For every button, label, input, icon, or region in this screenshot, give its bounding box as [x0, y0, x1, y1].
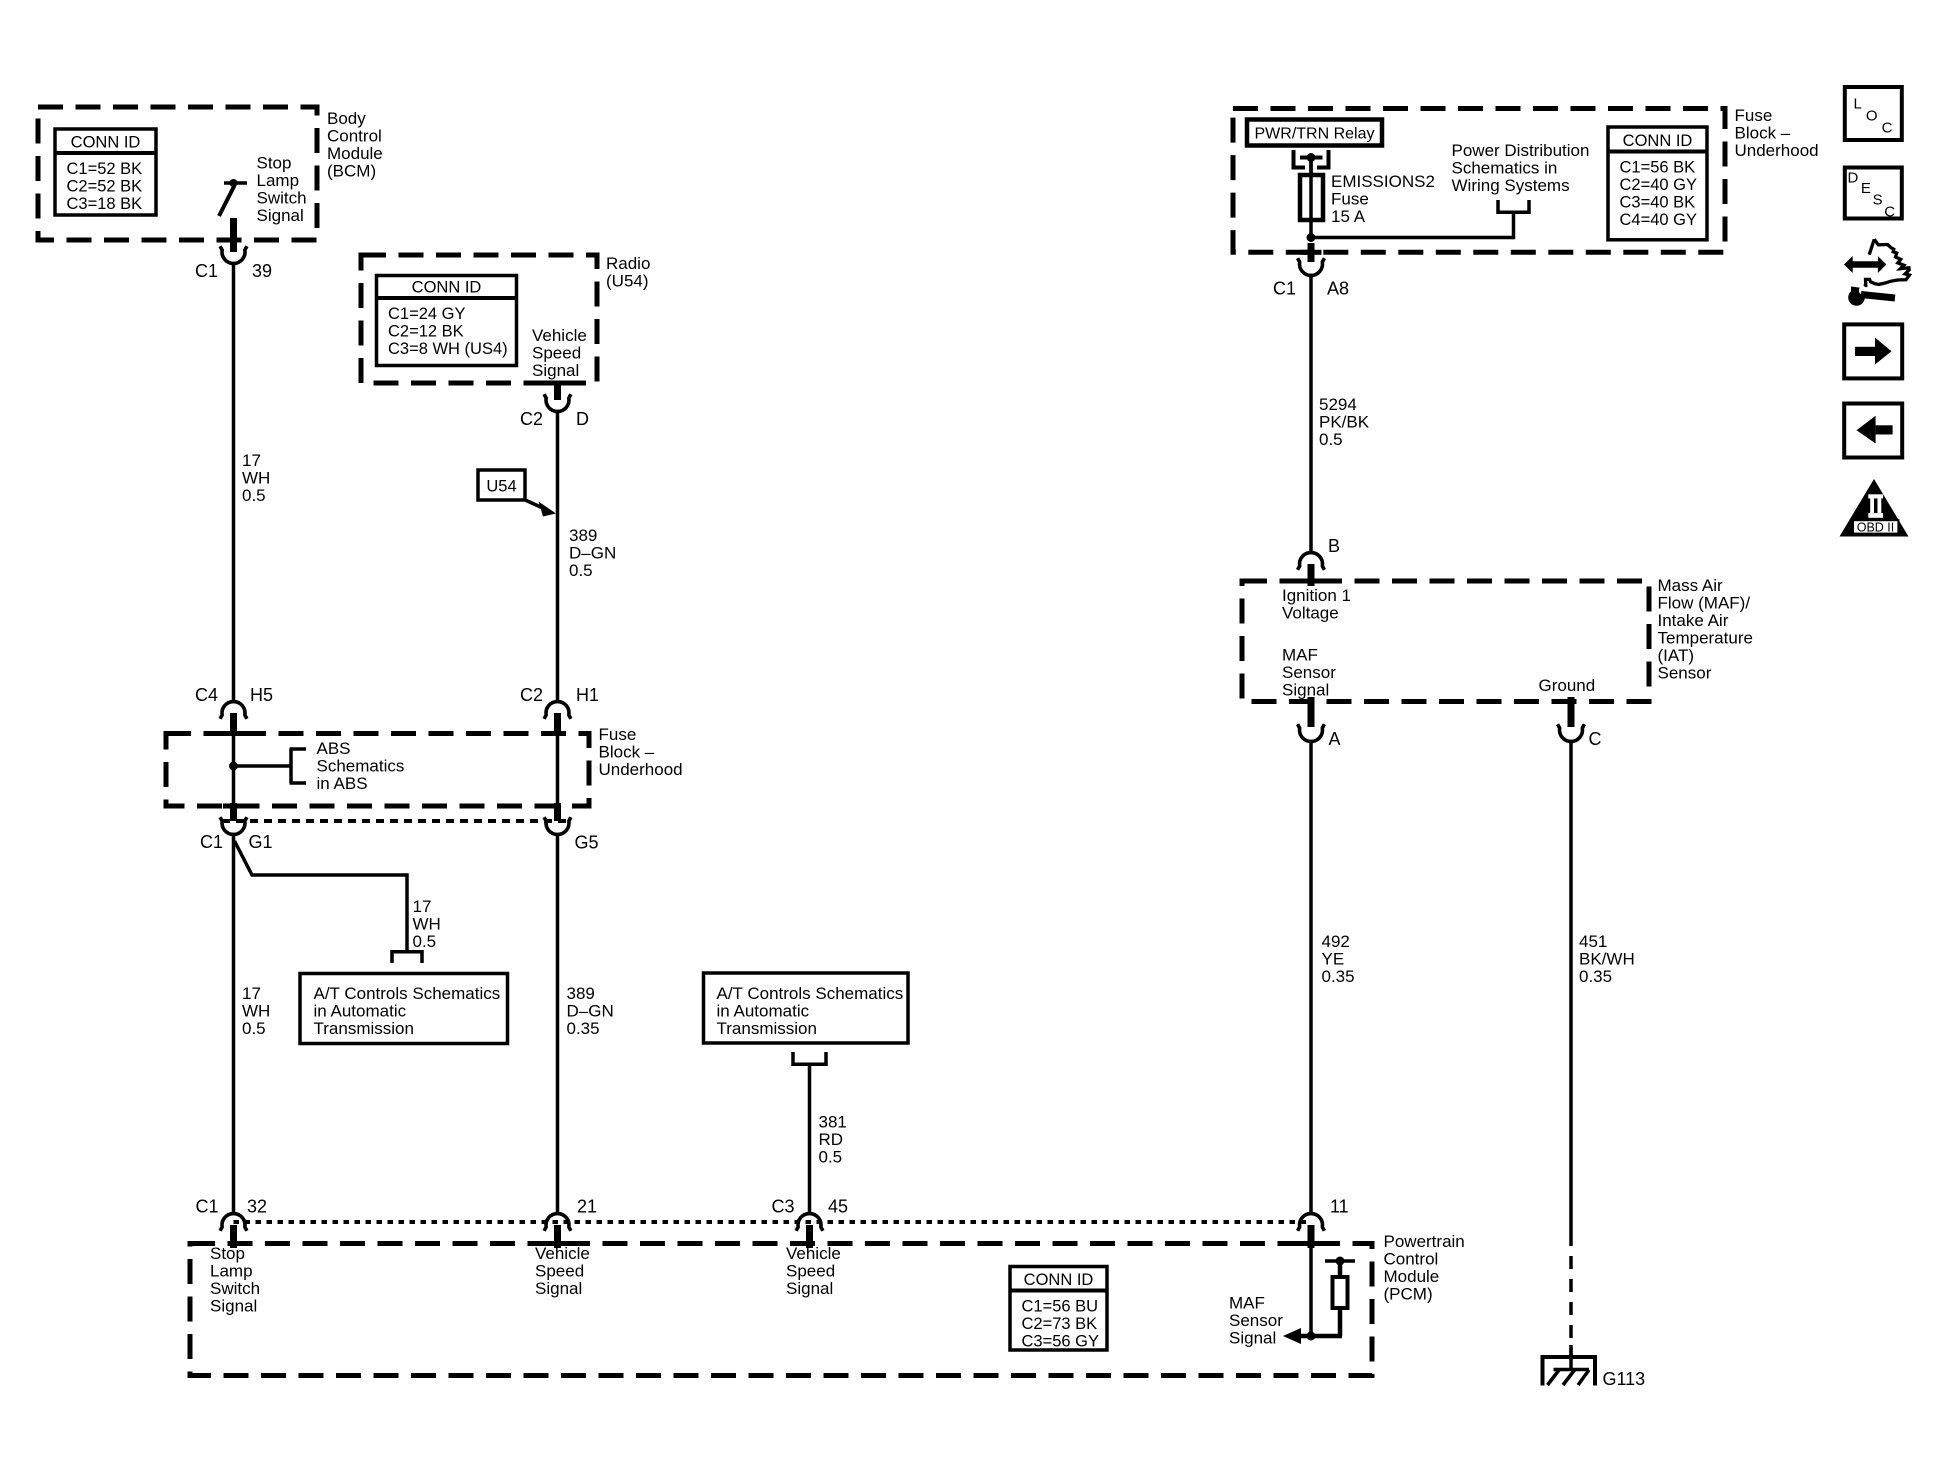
- junction dot PCM: [1307, 1332, 1316, 1341]
- icon OBD II triangle: [1840, 479, 1909, 537]
- pin C2/H1 into fuse block: [554, 713, 561, 736]
- svg-text:11: 11: [1330, 1197, 1349, 1217]
- pin radio C2 terminal D: [554, 383, 561, 400]
- ground G113: [1541, 1355, 1598, 1359]
- connector C cup: [1558, 724, 1585, 741]
- body control module BCM box: [38, 107, 317, 240]
- svg-text:O: O: [1866, 108, 1878, 125]
- wire 451 BK/WH solid part: [1569, 742, 1573, 1233]
- svg-text:OBD II: OBD II: [1857, 520, 1895, 534]
- pin C4/H5 into fuse block: [230, 713, 237, 736]
- svg-text:L: L: [1854, 96, 1862, 113]
- svg-text:E: E: [1861, 180, 1871, 197]
- pin fuse block C1 terminal A8: [1308, 243, 1315, 262]
- icon forward arrow: [1844, 324, 1902, 378]
- svg-text:CONN ID: CONN ID: [412, 279, 482, 297]
- pointer bracket power distribution: [1498, 211, 1529, 215]
- svg-text:CONN ID: CONN ID: [1024, 1271, 1094, 1289]
- svg-text:C1=56 BU: C1=56 BU: [1022, 1298, 1099, 1316]
- svg-text:C1=56 BK: C1=56 BK: [1620, 159, 1696, 177]
- connector 21 cup: [544, 1214, 571, 1231]
- CONN ID table fuse block: [1608, 127, 1707, 240]
- icon LOC: [1845, 87, 1902, 140]
- svg-text:C: C: [1882, 120, 1893, 137]
- CONN ID table PCM: [1010, 1267, 1107, 1351]
- MAF sensor signal arrow: [1294, 1334, 1342, 1339]
- junction dot below fuse: [1307, 233, 1316, 242]
- connector C2/D cup: [544, 394, 571, 411]
- wire 11 inside PCM: [1309, 1248, 1313, 1336]
- wire 389 D-GN to PCM: [556, 835, 560, 1213]
- wire 381 RD to PCM: [808, 1066, 812, 1213]
- svg-text:39: 39: [252, 261, 272, 281]
- wire to power distribution pointer: [1311, 236, 1514, 240]
- connector A cup: [1298, 724, 1325, 741]
- pin BCM C1 terminal 39: [230, 218, 237, 252]
- svg-text:C2: C2: [520, 685, 543, 705]
- A/T Controls Schematics box 1: [300, 974, 508, 1044]
- svg-text:A: A: [1329, 729, 1341, 749]
- svg-text:G113: G113: [1603, 1369, 1646, 1389]
- svg-text:C2=40 GY: C2=40 GY: [1620, 176, 1698, 194]
- U54 callout box: [478, 470, 525, 500]
- icon back arrow: [1844, 404, 1902, 458]
- U54 callout arrow: [523, 499, 545, 509]
- wire 389 D-GN from radio to fuse block: [556, 412, 560, 701]
- svg-text:Ground: Ground: [1539, 676, 1596, 695]
- icon DESC: [1845, 168, 1902, 219]
- wire 5294 PK/BK: [1309, 276, 1313, 552]
- connector 11 cup: [1298, 1214, 1325, 1231]
- relay armature: [1300, 156, 1323, 160]
- pin 21 into PCM: [554, 1225, 561, 1248]
- svg-text:G1: G1: [249, 832, 273, 852]
- svg-text:C: C: [1589, 729, 1602, 749]
- wire 451 BK/WH dashed part: [1569, 1233, 1573, 1358]
- svg-text:21: 21: [577, 1197, 597, 1217]
- dotted bus into PCM: [234, 1220, 1312, 1224]
- CONN ID table BCM: [55, 129, 156, 215]
- svg-text:S: S: [1873, 192, 1883, 209]
- svg-text:C1=52 BK: C1=52 BK: [67, 160, 143, 178]
- svg-text:32: 32: [247, 1197, 267, 1217]
- svg-text:G5: G5: [575, 833, 599, 853]
- svg-text:C1: C1: [1273, 279, 1296, 299]
- pin C3/45 into PCM: [806, 1225, 813, 1248]
- CONN ID table radio: [377, 276, 517, 366]
- connector C1/A8 cup: [1298, 258, 1325, 275]
- svg-text:H1: H1: [576, 685, 599, 705]
- svg-text:PWR/TRN Relay: PWR/TRN Relay: [1254, 126, 1374, 143]
- connector C4/H5 cup: [220, 702, 247, 719]
- connector C2/H1 cup: [544, 702, 571, 719]
- pin A out of MAF sensor: [1308, 697, 1315, 727]
- pointer bracket below A/T box 2: [793, 1063, 826, 1067]
- fuse EMISSIONS2 15A: [1300, 175, 1323, 220]
- connector C1/39 cup: [220, 246, 247, 263]
- PWR/TRN relay label box: [1247, 120, 1382, 146]
- branch wire 17 WH to A/T controls: [235, 841, 408, 951]
- ABS schematics pointer bracket: [229, 762, 238, 771]
- stop lamp switch S1: [224, 181, 247, 185]
- MAF/IAT sensor box: [1242, 581, 1649, 702]
- pin C1/G1 out of fuse block: [230, 803, 237, 821]
- wire 17 WH to PCM: [232, 835, 236, 1213]
- svg-text:U54: U54: [486, 478, 516, 496]
- pin G5 out of fuse block: [554, 803, 561, 821]
- pin B into MAF sensor: [1308, 564, 1315, 586]
- svg-text:C3=40 BK: C3=40 BK: [1620, 194, 1696, 212]
- connector G5 cup: [544, 817, 571, 834]
- wire inside fuse block right: [556, 736, 560, 804]
- svg-text:CONN ID: CONN ID: [1623, 132, 1693, 150]
- svg-text:45: 45: [828, 1197, 848, 1217]
- svg-text:D: D: [1848, 170, 1859, 187]
- pin C1/32 into PCM: [230, 1225, 237, 1248]
- svg-text:C1: C1: [200, 832, 223, 852]
- svg-text:C3: C3: [771, 1197, 794, 1217]
- svg-text:C3=56 GY: C3=56 GY: [1022, 1333, 1100, 1351]
- pointer bracket above A/T box 1: [392, 950, 422, 954]
- powertrain control module PCM box: [190, 1244, 1372, 1376]
- connector C1/G1 cup: [220, 817, 247, 834]
- fuse block underhood box (top right): [1233, 109, 1725, 253]
- svg-text:C1: C1: [195, 261, 218, 281]
- svg-text:C4=40 GY: C4=40 GY: [1620, 211, 1698, 229]
- svg-text:C2=73 BK: C2=73 BK: [1022, 1315, 1098, 1333]
- svg-text:C3=18 BK: C3=18 BK: [67, 195, 143, 213]
- svg-text:CONN ID: CONN ID: [71, 134, 141, 152]
- pin 11 into PCM: [1308, 1225, 1315, 1248]
- wire relay to fuse: [1309, 158, 1313, 177]
- svg-text:C2=52 BK: C2=52 BK: [67, 178, 143, 196]
- svg-text:A8: A8: [1327, 279, 1349, 299]
- resistor R1 inside PCM: [1338, 1308, 1343, 1336]
- icon wiring repair (arrow + wrench): [1844, 256, 1886, 273]
- radio U54 box: [361, 255, 597, 383]
- relay contact legs: [1292, 150, 1296, 168]
- wire 492 YE to PCM: [1309, 742, 1313, 1213]
- svg-text:Radio (U54): Radio (U54): [606, 254, 655, 291]
- svg-text:C3=8 WH (US4): C3=8 WH (US4): [388, 340, 508, 358]
- pin C out of MAF sensor: [1568, 697, 1575, 727]
- connector B cup: [1298, 553, 1325, 570]
- svg-text:C1=24 GY: C1=24 GY: [388, 305, 466, 323]
- svg-text:B: B: [1328, 536, 1340, 556]
- svg-text:C4: C4: [195, 685, 218, 705]
- dotted bus inside fuse block: [222, 819, 572, 823]
- fuse block underhood (ABS) box: [166, 734, 589, 807]
- svg-text:C1: C1: [195, 1197, 218, 1217]
- connector C1/32 cup: [220, 1214, 247, 1231]
- A/T Controls Schematics box 2: [704, 973, 909, 1043]
- svg-text:C2: C2: [520, 409, 543, 429]
- svg-text:C: C: [1884, 204, 1895, 221]
- border dash patches at pin crossings: [547, 381, 568, 386]
- wire inside fuse block left: [232, 736, 236, 804]
- connector C3/45 cup: [796, 1214, 823, 1231]
- svg-text:C2=12 BK: C2=12 BK: [388, 323, 464, 341]
- wire 17 WH from BCM to fuse block: [232, 264, 236, 701]
- svg-text:D: D: [576, 409, 589, 429]
- svg-text:H5: H5: [250, 685, 273, 705]
